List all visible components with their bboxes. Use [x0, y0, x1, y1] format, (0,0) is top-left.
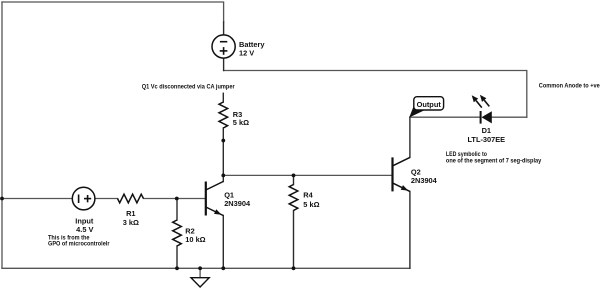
svg-text:10 kΩ: 10 kΩ	[185, 235, 205, 244]
wire R4 bottom lead	[293, 211, 295, 269]
wire LED anode right lead	[492, 116, 527, 118]
node dot R4 bottom	[292, 266, 296, 270]
battery V1 symbol	[212, 35, 235, 58]
svg-text:Q1 Vc disconnected via CA jump: Q1 Vc disconnected via CA jumper	[142, 84, 236, 90]
svg-text:D1: D1	[482, 126, 491, 135]
svg-text:Input: Input	[75, 216, 94, 225]
svg-text:5 kΩ: 5 kΩ	[303, 200, 319, 209]
node dot R1/R2/Q1 base	[175, 197, 179, 201]
svg-text:3 kΩ: 3 kΩ	[123, 218, 139, 227]
annotation: GPO note	[48, 236, 110, 248]
transistor Q1	[206, 182, 223, 216]
output callout	[409, 97, 443, 118]
node dot Q1 collector	[221, 174, 225, 178]
resistor R4	[289, 185, 298, 211]
R3 label	[233, 110, 249, 127]
node dot Q1 emitter bottom	[221, 266, 225, 270]
Q2 label	[411, 167, 438, 185]
node dot input left rail	[0, 197, 4, 201]
wire Q2 emitter to ground rail	[409, 191, 411, 268]
wire ground stub	[199, 268, 201, 277]
wire LED cathode to Q2 collector corner	[410, 116, 481, 118]
battery label	[239, 40, 265, 58]
svg-text:R2: R2	[185, 226, 194, 235]
wire R4 top lead	[293, 175, 295, 184]
wire battery bottom lead	[223, 58, 225, 70]
wire bottom ground rail	[2, 267, 410, 269]
D1 label	[467, 126, 505, 144]
svg-text:GPO of microcontrolelr: GPO of microcontrolelr	[48, 242, 110, 248]
svg-text:4.5 V: 4.5 V	[76, 225, 93, 234]
wire battery top lead	[223, 22, 225, 35]
svg-text:Common Anode to +ve: Common Anode to +ve	[539, 83, 600, 89]
resistor R3	[219, 102, 228, 128]
svg-text:12 V: 12 V	[239, 48, 254, 57]
wire R3 top stub (disconnected jumper)	[222, 93, 224, 102]
wire battery bottom to right rail	[224, 71, 527, 118]
ground	[191, 278, 209, 287]
svg-text:R4: R4	[303, 190, 313, 199]
svg-text:2N3904: 2N3904	[224, 199, 251, 208]
annotation: LED symbolic	[446, 152, 542, 165]
svg-text:LTL-307EE: LTL-307EE	[467, 135, 505, 144]
wire input to R1	[95, 198, 118, 200]
svg-text:2N3904: 2N3904	[411, 176, 438, 185]
input label	[75, 216, 94, 234]
LED D1	[472, 95, 492, 124]
node dot R2 bottom	[175, 266, 179, 270]
wire input node left lead	[2, 198, 72, 200]
svg-text:one of the segment of 7 seg-di: one of the segment of 7 seg-display	[446, 159, 542, 165]
svg-text:Output: Output	[417, 100, 442, 109]
wire R1 to Q1 base	[144, 198, 206, 200]
input source symbol	[72, 187, 95, 210]
transistor Q2	[393, 157, 410, 191]
svg-text:5 kΩ: 5 kΩ	[233, 118, 249, 127]
node dot ground stub	[198, 266, 202, 270]
wire R2 bottom lead	[176, 246, 178, 268]
wire Q1 collector node to Q2 base	[223, 174, 392, 176]
R4 label	[303, 190, 319, 208]
wire Q2 collector lead	[409, 117, 411, 157]
R1 label	[123, 209, 139, 227]
svg-text:LED symbolic to: LED symbolic to	[446, 152, 487, 158]
svg-text:R1: R1	[126, 209, 135, 218]
Q1 label	[224, 191, 251, 208]
resistor R2	[173, 220, 182, 246]
node dot R3 bottom terminal	[221, 139, 225, 143]
wire R3 bottom to Q1 collector	[222, 128, 224, 182]
wire Q1 emitter to ground rail	[222, 216, 224, 269]
wire R2 top lead	[176, 199, 178, 221]
svg-text:Q2: Q2	[411, 167, 421, 176]
wire top rail to battery	[2, 2, 224, 22]
node dot R4 top	[292, 174, 296, 178]
wire left vertical rail	[1, 2, 3, 268]
R2 label	[185, 226, 205, 244]
resistor R1	[118, 194, 144, 203]
